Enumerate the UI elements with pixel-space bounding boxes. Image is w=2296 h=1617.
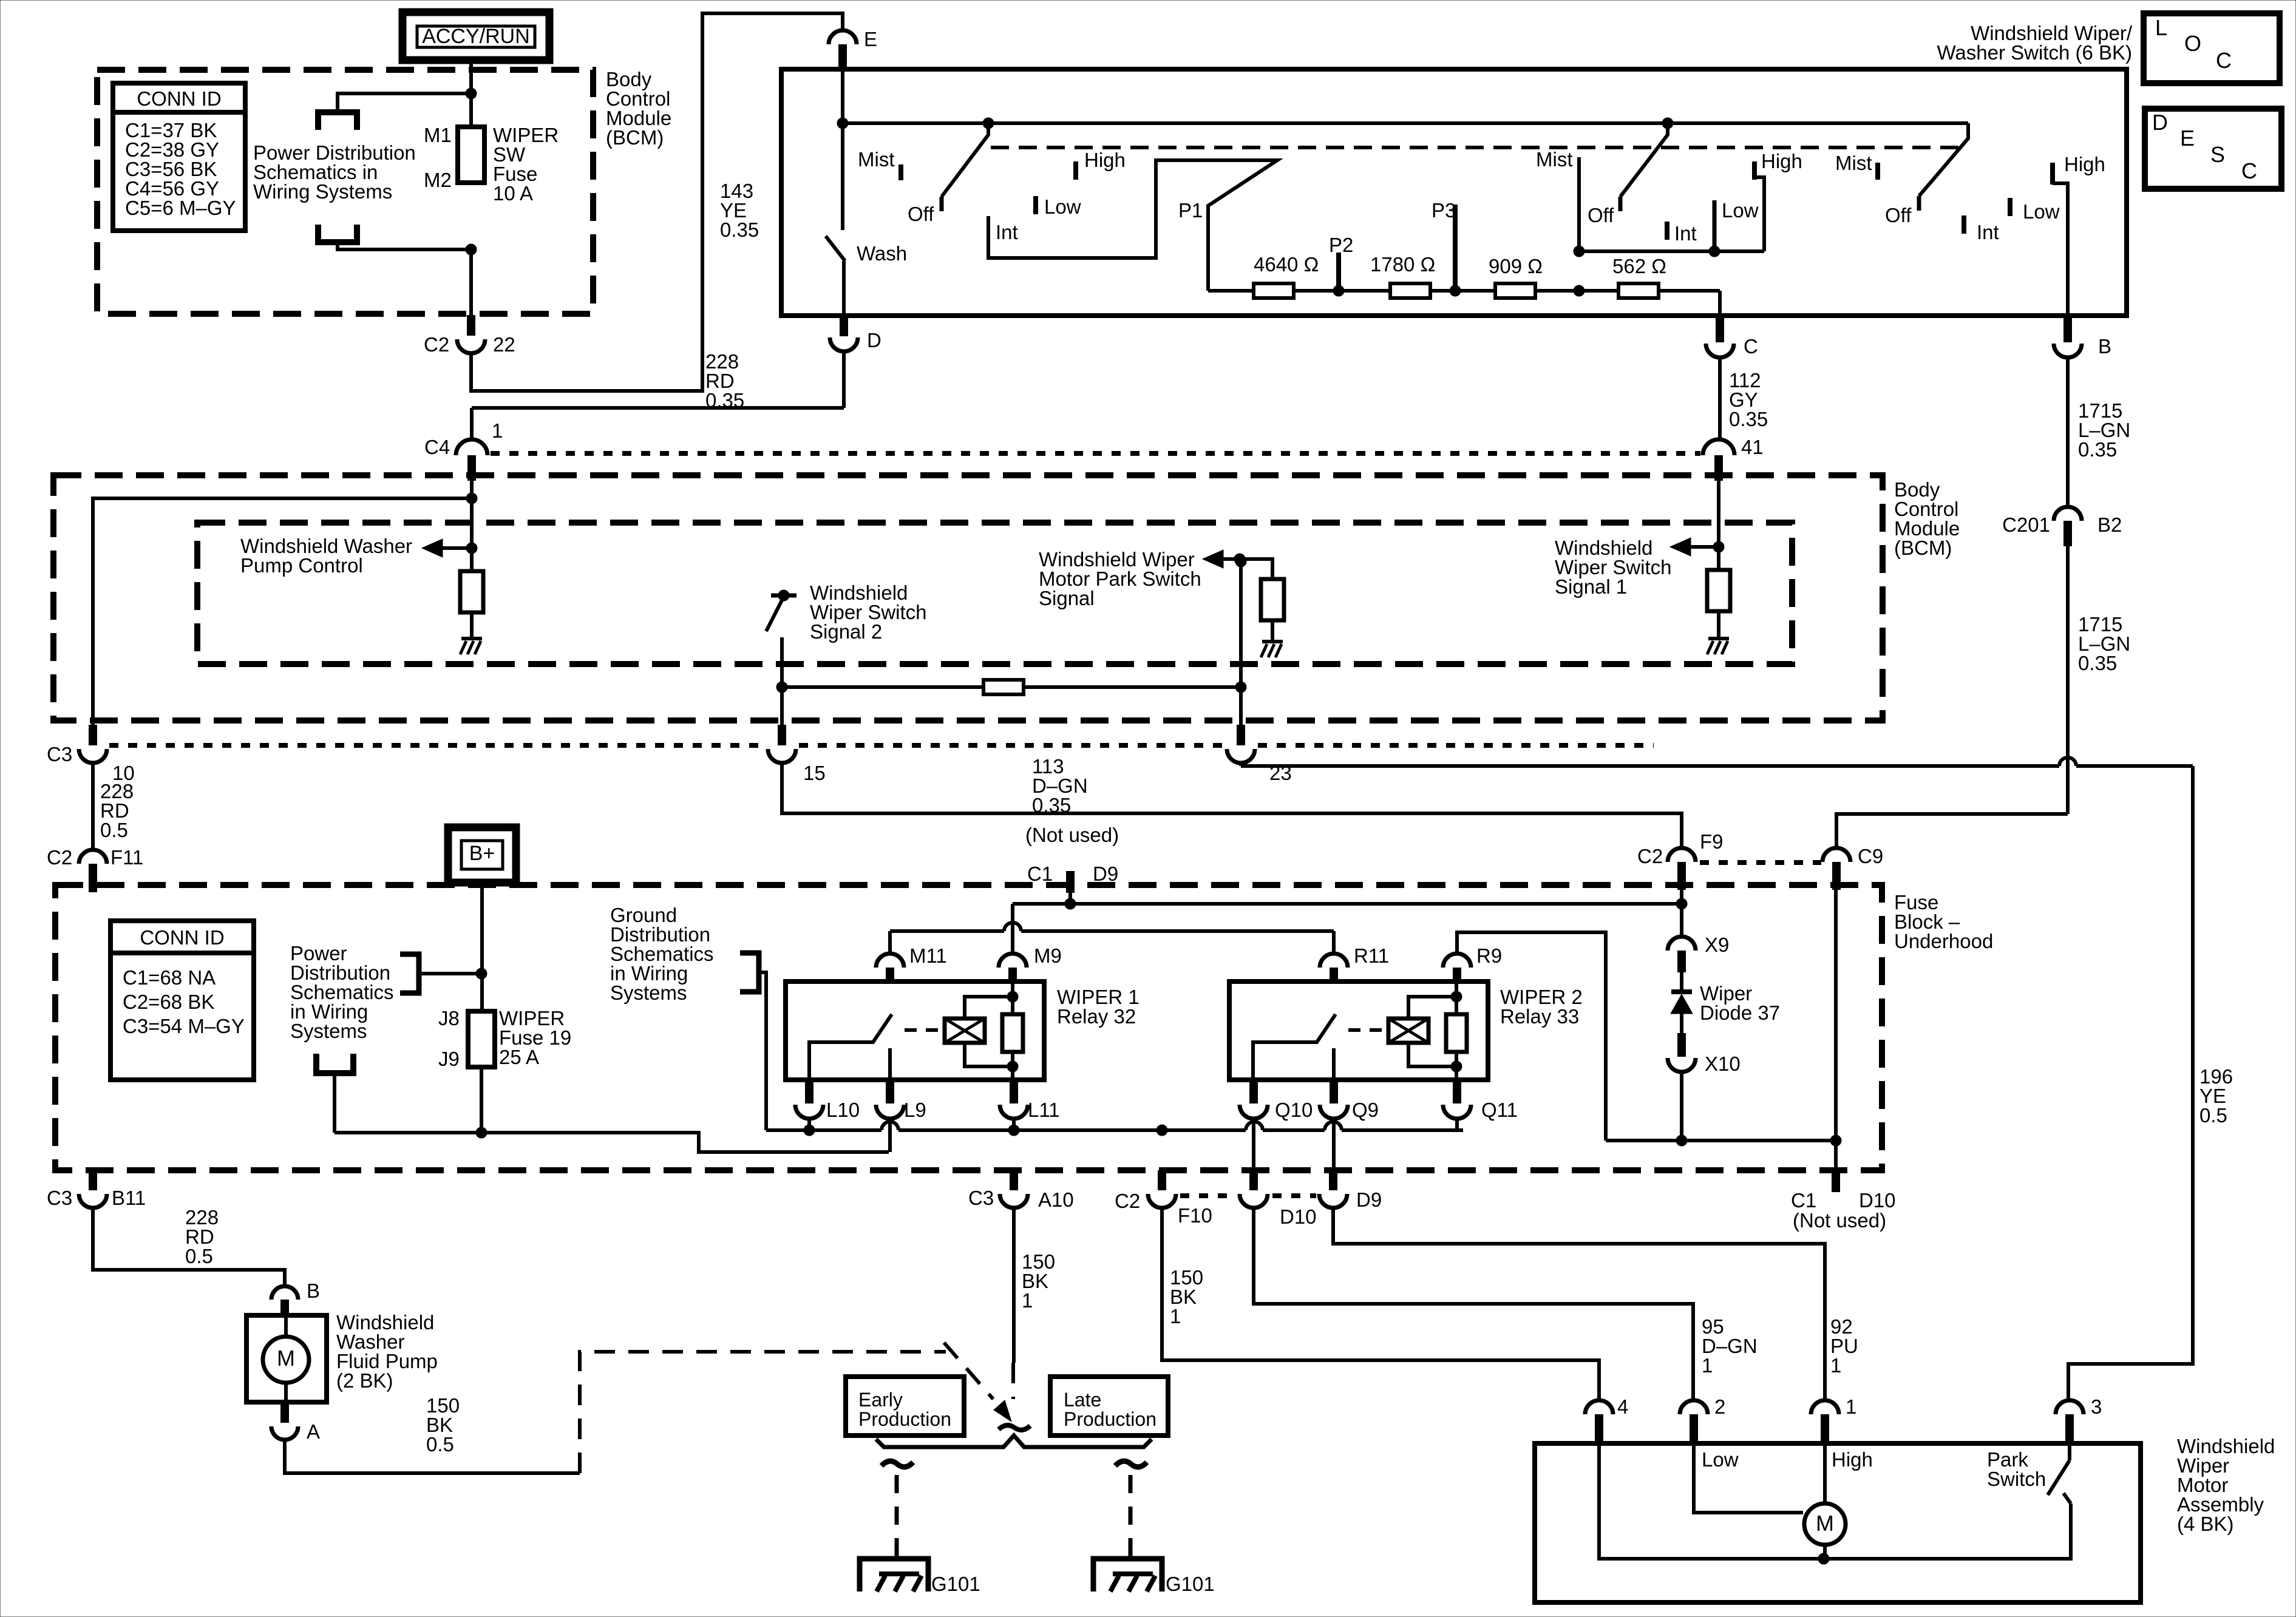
svg-text:Mist: Mist [858, 148, 895, 171]
connector row dotted C4 [491, 451, 1700, 456]
svg-text:M2: M2 [424, 169, 452, 191]
connector C1 pin D9 [1027, 863, 1118, 893]
svg-text:Low: Low [1702, 1448, 1739, 1471]
connector C2 pin F9 [1637, 830, 1724, 890]
connector R9 [1443, 944, 1502, 983]
resistor 4640 ohm [1254, 283, 1294, 298]
svg-text:B: B [307, 1280, 320, 1302]
connector pin 2 motor [1680, 1395, 1725, 1445]
relay box WIPER 1 Relay 32 [786, 981, 1044, 1080]
connector X10 [1668, 1033, 1741, 1075]
svg-text:Q11: Q11 [1481, 1099, 1518, 1121]
resistor 1780 ohm [1390, 283, 1430, 298]
wire High pole 3 to pin B [2053, 163, 2068, 316]
svg-text:Off: Off [1588, 204, 1614, 226]
wire coil loop [1408, 997, 1456, 1019]
wire L11 to bus [1012, 1119, 1016, 1130]
connector M9 [999, 944, 1062, 983]
svg-text:X10: X10 [1705, 1053, 1741, 1075]
connector Q11 [1443, 1080, 1518, 1121]
svg-text:(2 BK): (2 BK) [336, 1369, 393, 1392]
contact Low pole 1 [1033, 196, 1038, 214]
svg-text:0.5: 0.5 [185, 1245, 213, 1267]
node coil top junction [1007, 991, 1018, 1002]
svg-text:C3: C3 [968, 1187, 994, 1209]
wire 150 BK 0.5 pump A [285, 1440, 580, 1473]
connector X9 [1668, 934, 1729, 972]
svg-text:15: 15 [803, 762, 826, 784]
connector C3 pin B11 [47, 1170, 146, 1209]
resistor relay coil shunt [1455, 983, 1458, 1080]
connector 23 [1227, 725, 1292, 784]
ref box LOC [2144, 13, 2280, 83]
svg-text:C: C [2216, 48, 2232, 73]
svg-text:F9: F9 [1700, 830, 1724, 853]
node coil top junction [1451, 991, 1462, 1002]
svg-text:D: D [2152, 110, 2168, 135]
connector pin 4 motor [1585, 1395, 1628, 1445]
contact High pole 1 [1073, 161, 1078, 180]
connector C9 [1822, 845, 1883, 890]
svg-text:X9: X9 [1705, 934, 1729, 956]
connector M11 [876, 944, 947, 983]
svg-text:High: High [1832, 1448, 1873, 1471]
svg-text:C9: C9 [1858, 845, 1883, 867]
svg-text:D10: D10 [1859, 1189, 1896, 1212]
svg-text:Washer Switch (6 BK): Washer Switch (6 BK) [1937, 41, 2132, 64]
svg-text:P3: P3 [1432, 199, 1456, 222]
svg-text:Relay 33: Relay 33 [1500, 1005, 1579, 1028]
svg-text:C3: C3 [47, 743, 72, 765]
contact Low pole 2 [1713, 200, 1717, 251]
svg-text:Diode 37: Diode 37 [1700, 1002, 1780, 1024]
connector C2 pin F10 [1115, 1170, 1212, 1227]
svg-text:C1=68 NA: C1=68 NA [123, 966, 216, 989]
wire 95 D-GN 1 D10 to motor pin 2 [1254, 1208, 1693, 1400]
svg-text:High: High [1084, 149, 1126, 171]
connector row dotted C3/15/23 [109, 743, 1654, 748]
wire Q10 to D10 [1252, 1119, 1255, 1170]
svg-text:L9: L9 [904, 1099, 926, 1121]
node P2 junction [1333, 285, 1344, 296]
switch blade C (wiper switch pole 3) [1885, 123, 1968, 226]
label Windshield Wiper/ Washer Switch (6 BK) [1937, 22, 2132, 64]
svg-text:C3: C3 [47, 1187, 72, 1209]
ground BCM washer output [461, 637, 482, 640]
node bus junction at E [837, 118, 848, 129]
node fuse bottom junction [466, 244, 477, 255]
svg-text:C: C [1744, 335, 1758, 358]
svg-text:P2: P2 [1329, 234, 1353, 256]
contact P3 [1453, 205, 1458, 286]
wire 228 RD 0.5 C3 to F11 [91, 763, 95, 849]
svg-text:Signal 2: Signal 2 [810, 620, 882, 643]
resistor 909 ohm [1495, 283, 1535, 298]
svg-text:M9: M9 [1034, 944, 1062, 967]
svg-text:B+: B+ [469, 842, 495, 865]
svg-text:(Not used): (Not used) [1793, 1209, 1886, 1232]
svg-text:A: A [307, 1420, 320, 1443]
svg-text:1: 1 [1846, 1395, 1856, 1418]
resistor BCM signal 1 [1707, 547, 1730, 637]
svg-text:A10: A10 [1038, 1188, 1074, 1211]
svg-text:Q10: Q10 [1275, 1099, 1313, 1121]
svg-text:C5=6 M–GY: C5=6 M–GY [125, 197, 236, 219]
node BCM feed junction [466, 493, 477, 504]
svg-text:1: 1 [1022, 1289, 1033, 1312]
connector C3 pin 10 [47, 725, 135, 784]
resistor relay coil shunt [1011, 983, 1014, 1080]
connector R11 [1320, 944, 1389, 983]
svg-text:E: E [2180, 126, 2195, 151]
wire High pole 2 contact to int bus [1754, 161, 1764, 251]
node ladder junction to pole 2 [1574, 285, 1584, 296]
svg-text:High: High [2064, 153, 2105, 175]
connector L9 [876, 1080, 926, 1121]
svg-text:Mist: Mist [1835, 152, 1872, 174]
relay box WIPER 2 Relay 33 [1229, 981, 1488, 1080]
svg-text:E: E [864, 28, 877, 50]
svg-text:1: 1 [1702, 1354, 1713, 1377]
connector pin 3 motor [2056, 1395, 2102, 1445]
wire L9 down [888, 1119, 892, 1152]
svg-text:0.35: 0.35 [720, 219, 759, 241]
contact Mist pole 2 riser [1577, 157, 1581, 251]
switch blade B (wiper switch pole 2) [1588, 123, 1668, 226]
svg-text:L: L [2155, 15, 2167, 40]
wire diode bus [1606, 1139, 1836, 1142]
fuse WIPER SW Fuse 10 A [458, 127, 484, 183]
fuse WIPER Fuse 19 25 A [468, 1011, 495, 1067]
node D9 junction [1065, 898, 1076, 909]
svg-text:Low: Low [1044, 195, 1081, 218]
svg-text:Int: Int [1674, 222, 1697, 245]
node B+ bracket junction [476, 968, 487, 979]
contact Int pole 3 [1961, 215, 1966, 234]
node bus junction blade A [983, 118, 994, 129]
wire J9 feed to L9 [335, 1133, 889, 1152]
svg-text:Systems: Systems [290, 1020, 367, 1042]
power symbol B+ [448, 827, 516, 883]
wire 228 RD 0.5 B11 to washer pump [93, 1208, 285, 1285]
relay fixed contact [1332, 1048, 1336, 1080]
wire from power distribution bracket (bottom) [318, 225, 471, 249]
connector pin E [829, 28, 877, 70]
relay actuation dashed [905, 1028, 945, 1032]
svg-text:Wiring Systems: Wiring Systems [253, 180, 392, 203]
svg-text:0.35: 0.35 [2078, 438, 2117, 461]
node low junction [1709, 246, 1720, 257]
bracket power distribution [400, 954, 481, 993]
svg-text:Production: Production [858, 1408, 951, 1430]
svg-text:Relay 32: Relay 32 [1057, 1005, 1136, 1028]
svg-text:D9: D9 [1356, 1188, 1382, 1211]
svg-text:909 Ω: 909 Ω [1489, 255, 1543, 277]
wire fuse 19 to relay feed [480, 1067, 483, 1133]
node park signal junction lower [1235, 682, 1246, 693]
svg-text:G101: G101 [1166, 1573, 1215, 1595]
svg-text:10 A: 10 A [493, 182, 533, 205]
wire motor common return [1599, 1445, 2071, 1559]
wire 150 BK 1 A10 down [1012, 1208, 1016, 1363]
svg-text:Wash: Wash [857, 242, 907, 265]
wire Q11 to bus [1455, 1119, 1459, 1130]
arrow park switch signal [1203, 550, 1240, 568]
module box Body Control Module (BCM) middle dashed [53, 475, 1883, 720]
svg-text:C3=54 M–GY: C3=54 M–GY [123, 1015, 245, 1037]
svg-text:R11: R11 [1354, 944, 1389, 967]
wire low winding [1694, 1445, 1803, 1513]
svg-text:L10: L10 [826, 1099, 860, 1121]
connector C4 pin 1 [424, 419, 503, 481]
svg-text:0.5: 0.5 [426, 1433, 454, 1456]
relay actuation dashed [1348, 1028, 1388, 1032]
node park signal top junction [1235, 556, 1246, 567]
wire 1715 L-GN 0.35 B to C201 [2066, 358, 2070, 507]
wire D9 to relay coils [1013, 893, 1682, 954]
svg-text:C2: C2 [1637, 845, 1663, 867]
wire resistor ladder bus [1208, 289, 1720, 293]
wire 41 into BCM [1717, 481, 1720, 547]
svg-text:(BCM): (BCM) [606, 126, 664, 149]
svg-text:R9: R9 [1476, 944, 1502, 967]
wire M11 to R11 gang [890, 923, 1334, 954]
connector row dotted F9 to C9 [1700, 860, 1821, 865]
connector C2 pin F11 [47, 846, 143, 892]
svg-text:High: High [1761, 150, 1802, 172]
svg-text:0.5: 0.5 [2199, 1104, 2227, 1127]
staple power distribution lower [316, 1054, 353, 1133]
label box Late Production [1050, 1377, 1168, 1436]
brace production alternatives [876, 1436, 1152, 1447]
node park switch signal junction [1234, 554, 1245, 564]
wire C4 into BCM [470, 481, 474, 548]
node wiper switch signal 1 junction [1713, 541, 1724, 552]
node bus L11 junction [1008, 1125, 1019, 1136]
wire 112 GY 0.35 C to 41 [1718, 358, 1722, 439]
svg-text:4: 4 [1617, 1395, 1628, 1418]
wire relay common bus [766, 1122, 1463, 1130]
wire R9 coil feed [1457, 932, 1606, 1141]
wire 1715 L-GN 0.35 below C201 [2066, 546, 2070, 814]
wire dashed to G101 early [881, 1461, 913, 1570]
svg-text:M11: M11 [909, 944, 947, 967]
svg-text:25 A: 25 A [499, 1046, 539, 1068]
ref box DESC [2145, 109, 2281, 189]
wire C9 to C1 D10 [1834, 890, 1838, 1170]
connector L11 [1000, 1080, 1060, 1121]
relay fixed contact [888, 1048, 892, 1080]
wire B+ to fuse 19 [480, 883, 484, 1011]
svg-text:C2=68 BK: C2=68 BK [123, 991, 214, 1013]
svg-text:S: S [2210, 142, 2225, 167]
svg-text:Systems: Systems [610, 981, 687, 1004]
svg-text:Pump Control: Pump Control [240, 554, 363, 577]
svg-text:B2: B2 [2097, 514, 2122, 536]
ground G101 early [860, 1559, 928, 1592]
wire ACCY/RUN to fuse [469, 60, 473, 127]
contact Low pole 3 [2008, 198, 2012, 216]
node bus F10 junction [1156, 1125, 1167, 1136]
node washer pump control junction [466, 543, 477, 554]
switch wash [826, 123, 907, 316]
wire E to supply bus [841, 70, 844, 123]
svg-text:41: 41 [1741, 436, 1764, 458]
svg-text:Early: Early [858, 1389, 903, 1411]
wire 143 YE 0.35 to switch pin E [471, 13, 843, 391]
wire B2 to C9 [1836, 814, 2068, 847]
svg-text:0.35: 0.35 [1729, 408, 1768, 430]
connector C1 pin D10 not used [1791, 1170, 1896, 1232]
connector pin B [2054, 316, 2111, 358]
contact Int pole 2 [1665, 222, 1669, 240]
svg-text:(BCM): (BCM) [1894, 537, 1952, 559]
svg-text:Int: Int [996, 221, 1018, 243]
svg-text:D: D [867, 329, 881, 351]
wire Q9 to D9 [1332, 1119, 1336, 1170]
switch park switch [2048, 1445, 2071, 1503]
diode Wiper Diode 37 [1671, 972, 1693, 1033]
node J9 junction [476, 1127, 487, 1138]
wire 41 column down to 23 [1239, 561, 1243, 725]
motor assembly box Windshield Wiper Motor Assembly (4 BK) [1535, 1443, 2141, 1602]
wire 228 RD from D to C4 [472, 353, 844, 441]
svg-text:D10: D10 [1280, 1205, 1317, 1228]
svg-text:(4 BK): (4 BK) [2177, 1513, 2234, 1535]
wire pole 2 int bus [1579, 249, 1764, 253]
svg-text:C4: C4 [424, 436, 450, 458]
relay switch blade relay 1 [809, 1014, 892, 1080]
connector C3 pin A10 [968, 1170, 1074, 1211]
connector table CONN ID (fuse block) [110, 921, 254, 1080]
connector row dotted F10 D10 D9 [1180, 1193, 1316, 1198]
svg-text:1780 Ω: 1780 Ω [1370, 253, 1435, 276]
wire F10 to motor pin 4 [1162, 1208, 1599, 1400]
wire fuse to connector C2 pin 22 [469, 249, 473, 315]
fuse block box dashed Fuse Block - Underhood [55, 885, 1882, 1170]
svg-text:D9: D9 [1093, 863, 1118, 885]
node signal 2 junction [776, 682, 787, 693]
svg-text:Switch: Switch [1987, 1468, 2046, 1490]
module box Body Control Module (BCM) top dashed [97, 70, 593, 314]
node F9/X9 junction [1676, 898, 1687, 909]
arrow washer pump control [422, 539, 472, 557]
resistor BCM park switch input [1240, 559, 1284, 640]
node bus junction blade B [1662, 118, 1673, 129]
wire coil loop [965, 997, 1013, 1019]
connector C201 pin B2 [2002, 507, 2122, 546]
svg-text:C: C [2241, 158, 2257, 183]
svg-text:M1: M1 [424, 124, 452, 146]
svg-text:Signal 1: Signal 1 [1555, 575, 1627, 598]
svg-text:M: M [277, 1346, 295, 1371]
ground BCM signal 1 [1708, 637, 1729, 640]
contact Mist pole 3 [1875, 163, 1880, 180]
wire switch supply bus [843, 121, 1968, 125]
node coil bottom junction [1451, 1061, 1462, 1072]
connector pin B pump [271, 1280, 320, 1317]
svg-text:(Not used): (Not used) [1025, 824, 1119, 846]
connector table CONN ID (BCM) [113, 83, 245, 231]
connector D10 [1240, 1170, 1317, 1228]
svg-text:C201: C201 [2002, 514, 2050, 536]
svg-text:Int: Int [1977, 221, 1999, 243]
svg-text:F10: F10 [1178, 1204, 1212, 1227]
svg-text:C1: C1 [1027, 863, 1053, 885]
wire dashed to G101 late [1115, 1461, 1147, 1570]
connector D9 [1319, 1170, 1382, 1211]
svg-text:G101: G101 [931, 1573, 980, 1595]
svg-text:Mist: Mist [1536, 148, 1573, 171]
node coil bottom junction [1007, 1061, 1018, 1072]
motor wiper motor M [1804, 1445, 1846, 1559]
svg-text:1: 1 [1830, 1354, 1841, 1377]
contact P2 [1336, 253, 1341, 286]
label box Early Production [846, 1377, 964, 1436]
relay coil [945, 1019, 985, 1043]
svg-text:J8: J8 [438, 1007, 460, 1029]
svg-text:Low: Low [2023, 200, 2060, 223]
svg-text:Underhood: Underhood [1894, 930, 1993, 952]
wire Int contact ladder riser [988, 160, 1277, 291]
svg-text:B11: B11 [112, 1187, 146, 1209]
wire X10 to diode bus [1680, 1072, 1683, 1141]
motor windshield washer fluid pump [246, 1315, 327, 1402]
wire 15 to F9 [782, 763, 1682, 847]
wire BCM internal feed to C3 [93, 498, 472, 725]
svg-text:2: 2 [1714, 1395, 1725, 1418]
relay coil [1388, 1019, 1428, 1043]
switch wiper switch signal 2 [766, 590, 796, 725]
svg-text:C2: C2 [47, 846, 72, 869]
bracket ground distribution [740, 953, 766, 1130]
wire F9 into fuse block [1680, 877, 1683, 938]
svg-text:22: 22 [493, 333, 515, 356]
wire dashed late production link [1011, 1363, 1015, 1399]
wire L10 to bus [807, 1119, 811, 1130]
resistor 562 ohm [1618, 283, 1659, 298]
svg-text:562 Ω: 562 Ω [1612, 255, 1666, 277]
svg-text:Off: Off [1885, 204, 1912, 226]
resistor BCM washer output [460, 548, 483, 637]
svg-text:M: M [1816, 1511, 1834, 1536]
svg-text:J9: J9 [438, 1048, 460, 1070]
svg-text:Production: Production [1064, 1408, 1156, 1430]
connector Q10 [1240, 1080, 1313, 1121]
svg-text:CONN ID: CONN ID [140, 926, 224, 949]
svg-text:C2: C2 [424, 333, 449, 356]
svg-text:ACCY/RUN: ACCY/RUN [422, 25, 530, 48]
switch assembly box Windshield Wiper/Washer Switch (6 BK) [781, 69, 2127, 316]
svg-text:4640 Ω: 4640 Ω [1254, 253, 1319, 276]
node diode bus C9 junction [1830, 1135, 1841, 1146]
svg-text:Low: Low [1722, 199, 1759, 222]
svg-text:CONN ID: CONN ID [137, 87, 221, 110]
connector C2 pin 22 [424, 315, 515, 356]
ground BCM park switch input [1262, 640, 1283, 643]
svg-text:Late: Late [1064, 1389, 1101, 1411]
svg-text:Q9: Q9 [1352, 1099, 1379, 1121]
svg-text:C2: C2 [1115, 1190, 1140, 1212]
svg-text:Signal: Signal [1039, 587, 1095, 609]
connector 15 [768, 725, 826, 784]
svg-text:L11: L11 [1028, 1099, 1060, 1121]
svg-text:1: 1 [1170, 1305, 1181, 1327]
svg-text:0.35: 0.35 [2078, 652, 2117, 674]
wire signal 2 resistor row [782, 680, 1241, 694]
svg-text:Off: Off [908, 203, 934, 225]
svg-text:O: O [2184, 31, 2201, 56]
